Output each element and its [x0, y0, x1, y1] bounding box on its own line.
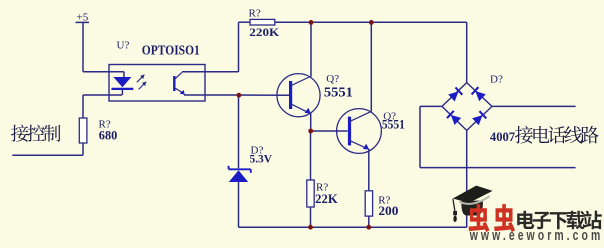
svg-text:5551: 5551 [382, 117, 405, 131]
svg-text:U?: U? [117, 40, 130, 52]
svg-text:Q?: Q? [326, 73, 339, 85]
svg-text:D?: D? [490, 74, 503, 86]
svg-text:5.3V: 5.3V [250, 153, 273, 165]
svg-text:5551: 5551 [324, 85, 353, 100]
svg-text:680: 680 [99, 129, 118, 143]
svg-text:22K: 22K [315, 192, 338, 206]
svg-text:4007: 4007 [490, 129, 516, 144]
svg-text:200: 200 [378, 204, 398, 218]
svg-text:220K: 220K [249, 25, 280, 39]
svg-text:R?: R? [249, 8, 261, 20]
svg-text:OPTOISO1: OPTOISO1 [142, 44, 200, 59]
svg-text:+5: +5 [77, 12, 89, 24]
